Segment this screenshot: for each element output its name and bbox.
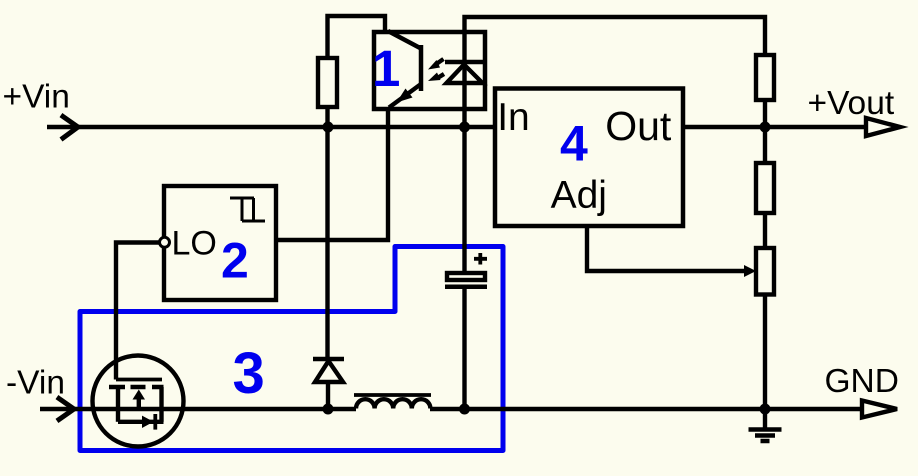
capacitor C1 plus [474, 253, 487, 265]
optocoupler transistor bar [419, 45, 424, 91]
capacitor C1 wire bottom [462, 289, 466, 409]
optocoupler transistor collector [388, 31, 421, 49]
wire resistor R1 bottom to rail [325, 107, 329, 127]
svg-text:GND: GND [825, 363, 899, 400]
MOSFET Q1 circle [93, 356, 184, 447]
junction node diode/rail [323, 404, 334, 415]
wire controller output [116, 243, 160, 380]
inductor L1 [356, 399, 430, 408]
wire bottom rail left [40, 407, 356, 411]
junction node R1/rail [323, 122, 334, 133]
resistor R2 (top of divider) [756, 55, 774, 100]
junction node divider/Vout [760, 122, 771, 133]
wire R3 to pot [763, 213, 767, 248]
potentiometer R4 [756, 248, 774, 295]
svg-text:+Vout: +Vout [808, 85, 895, 122]
optocoupler emitter arrowhead [397, 89, 413, 103]
MOSFET body arrow [133, 390, 146, 400]
+Vin arrowhead [63, 117, 78, 139]
junction node divider/gnd [760, 404, 771, 415]
svg-text:+Vin: +Vin [3, 79, 70, 116]
optocoupler LED cathode bar [445, 60, 485, 65]
wiper arrowhead [744, 265, 756, 277]
svg-text:3: 3 [233, 341, 265, 406]
optocoupler transistor emitter [389, 84, 421, 108]
wire Adj to pot wiper [587, 226, 744, 271]
capacitor C1 top plate [447, 273, 485, 280]
controller U2 box [164, 186, 276, 300]
optocoupler light arrow 1 [437, 59, 444, 64]
regulator U4 box [495, 89, 683, 227]
junction node LED/rail [459, 122, 470, 133]
resistor R1 (input) [318, 58, 337, 107]
wire top loop right [465, 17, 766, 127]
+Vout open arrowhead [866, 118, 900, 136]
svg-text:2: 2 [221, 232, 249, 288]
wire rail down to diode [325, 127, 329, 357]
svg-text:Out: Out [605, 103, 672, 149]
MOSFET body diode [142, 416, 154, 428]
svg-text:1: 1 [372, 40, 400, 97]
capacitor C1 bottom plate [445, 285, 487, 290]
-Vin arrowhead [59, 399, 74, 420]
wire emitter to controller [276, 109, 388, 240]
resistor R3 [756, 163, 774, 213]
freewheel diode D1 cathode bar [313, 357, 344, 361]
junction node cap/rail [459, 404, 470, 415]
inductor core line [354, 393, 431, 397]
GND open arrowhead [862, 401, 897, 418]
freewheel diode D1 triangle [315, 361, 343, 382]
optocoupler light arrow 2 [438, 74, 445, 78]
ground symbol [763, 409, 767, 428]
wire bottom rail right [430, 407, 862, 411]
optocoupler LED triangle [447, 65, 483, 84]
wire R2 to rail [763, 100, 767, 163]
wire pot to gnd rail [763, 295, 767, 410]
wire +Vin rail [47, 125, 494, 129]
wire top loop left [328, 16, 386, 58]
optocoupler U1 box [374, 32, 485, 109]
wire Out rail [683, 125, 866, 129]
MOSFET gate plate [116, 378, 162, 382]
MOSFET source stub [116, 387, 120, 422]
wire diode to rail [326, 382, 330, 409]
MOSFET drain stub [159, 387, 163, 422]
svg-text:In: In [497, 96, 530, 139]
svg-text:-Vin: -Vin [6, 365, 65, 402]
capacitor C1 wire top [462, 127, 466, 271]
MOSFET channel bars [109, 385, 164, 390]
MOSFET body diode line [118, 420, 164, 424]
converter block 3 (blue outline) [80, 247, 503, 451]
pulse waveform symbol [230, 198, 265, 221]
svg-text:LO: LO [172, 225, 217, 263]
svg-text:4: 4 [560, 116, 588, 172]
inverter bubble [160, 237, 170, 247]
svg-text:Adj: Adj [551, 174, 607, 217]
